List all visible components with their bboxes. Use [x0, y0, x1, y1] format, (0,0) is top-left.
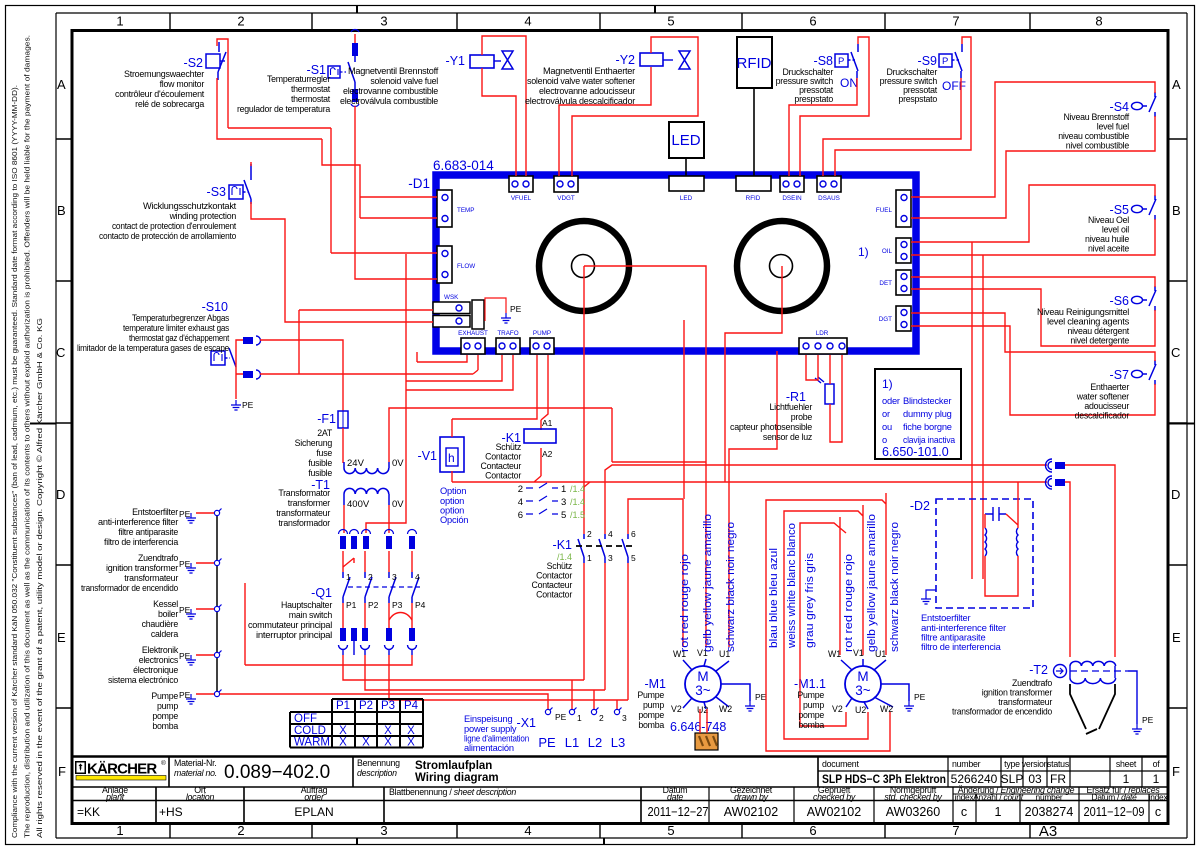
svg-text:-K1: -K1: [553, 538, 573, 552]
level switch S5: [1110, 195, 1156, 220]
connector WSK: [433, 294, 484, 329]
svg-text:6.683-014: 6.683-014: [433, 158, 494, 173]
spark gap electrodes: [1070, 684, 1115, 734]
svg-text:P2: P2: [359, 700, 373, 712]
svg-text:thermostat gaz d'échappement: thermostat gaz d'échappement: [129, 333, 230, 343]
svg-text:2038274: 2038274: [1025, 805, 1074, 819]
svg-text:electroválvula combustible: electroválvula combustible: [340, 96, 438, 106]
connector LED (board): [669, 176, 704, 191]
motor M1.1: [794, 648, 909, 715]
svg-text:rot red rouge rojo: rot red rouge rojo: [843, 554, 855, 652]
svg-text:2: 2: [599, 713, 604, 723]
svg-text:Entstoerfilter: Entstoerfilter: [921, 613, 970, 623]
wire board bottom to W1 join: [683, 320, 685, 499]
svg-text:PE: PE: [179, 509, 191, 519]
svg-text:h: h: [448, 451, 455, 465]
ground T2 PE: [1132, 724, 1142, 734]
svg-text:Enthaerter: Enthaerter: [1090, 382, 1129, 392]
svg-text:dummy plug: dummy plug: [903, 409, 952, 419]
svg-text:B: B: [57, 203, 66, 218]
contactor coil K1: [502, 418, 556, 459]
svg-text:SLP: SLP: [1001, 772, 1024, 786]
connector TEMP: [437, 190, 452, 227]
svg-text:LED: LED: [671, 132, 700, 149]
svg-text:level oil: level oil: [1102, 225, 1129, 235]
svg-text:relé de sobrecarga: relé de sobrecarga: [135, 99, 204, 109]
wire PUMP pin2 to K1 A1: [541, 355, 548, 430]
motor M1 wire colour labels: [679, 514, 737, 652]
wire circle2 to U1: [729, 351, 777, 647]
text S8: [776, 67, 834, 104]
svg-text:weiss white blanc blanco: weiss white blanc blanco: [786, 523, 798, 649]
svg-text:Material-Nr.: Material-Nr.: [174, 758, 216, 768]
svg-text:PE: PE: [242, 400, 254, 410]
column numbers top: [116, 14, 1102, 29]
svg-text:level cleaning agents: level cleaning agents: [1047, 317, 1130, 327]
svg-text:Anzahl / count: Anzahl / count: [973, 792, 1024, 802]
PE tap Elektronik: [179, 651, 222, 666]
svg-text:number: number: [952, 759, 981, 769]
svg-text:0V: 0V: [392, 458, 404, 469]
wire loop S6: [911, 277, 1155, 346]
connector VDGT: [554, 176, 578, 192]
svg-text:U2: U2: [855, 705, 866, 715]
svg-text:rot red rouge rojo: rot red rouge rojo: [679, 554, 691, 652]
svg-text:RFID: RFID: [746, 195, 761, 202]
svg-text:A3: A3: [1039, 823, 1057, 840]
PE tap Zuendtrafo: [179, 559, 222, 574]
svg-text:0V: 0V: [392, 499, 404, 510]
svg-text:6: 6: [518, 510, 523, 521]
svg-text:adoucisseur: adoucisseur: [1084, 401, 1129, 411]
transformer T1 primary 400V: [311, 478, 404, 510]
connector DGT: [879, 306, 911, 331]
PE tap Entstoerfilter: [179, 509, 222, 524]
svg-text:/1.4: /1.4: [570, 484, 585, 494]
svg-text:1: 1: [1153, 772, 1160, 786]
svg-text:4: 4: [518, 497, 523, 508]
svg-text:Schütz: Schütz: [496, 442, 521, 452]
svg-text:L1: L1: [565, 735, 579, 750]
winding protection S3: [207, 164, 251, 204]
wire S3 to WSK: [251, 162, 433, 322]
svg-text:OFF: OFF: [294, 713, 317, 725]
svg-text:-F1: -F1: [317, 412, 336, 426]
svg-text:solenoid valve water softener: solenoid valve water softener: [527, 76, 635, 86]
Q1 bottom plug pins: [339, 628, 417, 655]
svg-text:Zuendtrafo: Zuendtrafo: [138, 553, 178, 563]
svg-text:Blattbenennung / sheet descrip: Blattbenennung / sheet description: [389, 787, 516, 797]
wire S10 common to ground: [236, 340, 243, 399]
svg-text:Blindstecker: Blindstecker: [903, 396, 951, 406]
heater dial circle 2: [737, 221, 827, 311]
svg-text:-Y2: -Y2: [616, 53, 636, 67]
svg-text:1): 1): [858, 245, 869, 259]
svg-text:3: 3: [561, 497, 566, 508]
svg-text:24V: 24V: [347, 458, 365, 469]
svg-text:option: option: [440, 496, 464, 506]
svg-text:schwarz black noir negro: schwarz black noir negro: [889, 522, 901, 652]
svg-text:c: c: [961, 805, 967, 819]
svg-text:option: option: [440, 506, 464, 516]
svg-text:2: 2: [237, 14, 244, 29]
legend box dummy plug: [875, 369, 961, 459]
wire PUMP pin1 to V1: [452, 355, 537, 437]
svg-text:4: 4: [524, 823, 531, 838]
svg-text:Magnetventil Enthaerter: Magnetventil Enthaerter: [543, 66, 635, 76]
svg-text:TEMP: TEMP: [457, 207, 475, 214]
svg-text:transformador de encendido: transformador de encendido: [952, 707, 1052, 717]
svg-text:400V: 400V: [347, 499, 370, 510]
svg-text:Kessel: Kessel: [153, 599, 178, 609]
wago connector: [695, 733, 718, 750]
svg-text:fuse: fuse: [316, 448, 332, 458]
svg-text:filtre antiparasite: filtre antiparasite: [118, 527, 178, 537]
svg-text:schwarz black noir negro: schwarz black noir negro: [725, 522, 737, 652]
svg-text:bomba: bomba: [638, 720, 664, 730]
svg-text:pompe: pompe: [638, 710, 664, 720]
svg-text:WARM: WARM: [294, 737, 330, 749]
svg-text:Compliance with the current ve: Compliance with the current version of K…: [10, 85, 19, 838]
svg-text:index: index: [955, 792, 975, 802]
svg-text:WSK: WSK: [444, 294, 459, 301]
Kaercher logo: [75, 759, 166, 780]
svg-text:1: 1: [1123, 772, 1130, 786]
connector TRAFO: [496, 338, 520, 354]
K1 auxiliary contact list: [518, 483, 585, 521]
svg-text:2011−12−09: 2011−12−09: [1084, 805, 1145, 819]
svg-text:flow monitor: flow monitor: [160, 79, 205, 89]
svg-text:-S2: -S2: [184, 56, 204, 70]
svg-text:7: 7: [952, 823, 959, 838]
fuse F1: [317, 411, 348, 428]
svg-text:PE: PE: [755, 692, 767, 702]
motor M1: [644, 648, 750, 715]
K1 contact column wires up: [584, 465, 1047, 647]
svg-text:order: order: [304, 792, 325, 802]
svg-text:Sicherung: Sicherung: [295, 438, 333, 448]
svg-text:fusible: fusible: [308, 468, 332, 478]
svg-text:KÄRCHER: KÄRCHER: [87, 761, 157, 778]
svg-text:Niveau Brennstoff: Niveau Brennstoff: [1063, 112, 1129, 122]
svg-text:2: 2: [518, 484, 523, 495]
column numbers bottom: [116, 823, 1057, 840]
svg-text:6.646-748: 6.646-748: [670, 720, 726, 734]
svg-text:PE: PE: [914, 692, 926, 702]
svg-text:5: 5: [561, 510, 566, 521]
level switch S4: [1110, 92, 1156, 117]
svg-text:Entstoerfilter: Entstoerfilter: [132, 507, 178, 517]
pressure switch S9: [918, 44, 966, 93]
svg-text:Contactor: Contactor: [485, 452, 521, 462]
svg-text:Temperaturregler: Temperaturregler: [267, 74, 330, 84]
svg-text:transformateur: transformateur: [998, 697, 1052, 707]
text S2: [115, 69, 205, 109]
svg-text:DSEIN: DSEIN: [782, 195, 802, 202]
svg-text:-M1.1: -M1.1: [794, 677, 826, 691]
svg-text:pump: pump: [643, 700, 664, 710]
svg-text:3: 3: [380, 823, 387, 838]
svg-text:Contacteur: Contacteur: [480, 461, 521, 471]
EMC filter PE chain bus: [216, 513, 218, 694]
connector DSEIN: [780, 176, 804, 192]
svg-text:/1.5: /1.5: [570, 510, 585, 520]
svg-text:Stroemungswaechter: Stroemungswaechter: [124, 69, 204, 79]
svg-text:sistema electrónico: sistema electrónico: [108, 675, 178, 685]
svg-text:-S3: -S3: [207, 185, 227, 199]
svg-text:checked by: checked by: [813, 792, 856, 802]
svg-text:grau grey fris gris: grau grey fris gris: [804, 553, 816, 648]
svg-text:B: B: [1172, 203, 1181, 218]
svg-text:main switch: main switch: [289, 610, 333, 620]
svg-text:commutateur principal: commutateur principal: [248, 620, 332, 630]
svg-text:E: E: [57, 630, 66, 645]
wire Y2 to VDGT: [559, 37, 698, 176]
svg-text:PE: PE: [538, 735, 556, 750]
svg-text:6.650-101.0: 6.650-101.0: [882, 445, 949, 459]
svg-text:PE: PE: [510, 304, 522, 314]
svg-text:P3: P3: [392, 600, 403, 610]
svg-text:Contacteur: Contacteur: [531, 580, 572, 590]
wire LED to board: [685, 158, 687, 176]
svg-text:level fuel: level fuel: [1097, 122, 1130, 132]
svg-text:1: 1: [995, 805, 1002, 819]
svg-text:All rights reserved in the eve: All rights reserved in the event of the …: [35, 318, 44, 838]
svg-text:2: 2: [368, 572, 373, 582]
svg-text:5266240: 5266240: [951, 772, 998, 786]
text S3: [99, 201, 237, 241]
svg-text:number: number: [1036, 792, 1063, 802]
RFID box: [737, 37, 772, 88]
svg-text:std. checked by: std. checked by: [884, 792, 942, 802]
svg-text:P3: P3: [381, 700, 395, 712]
svg-text:X: X: [362, 737, 370, 749]
connector EXHAUST: [461, 338, 485, 354]
ground M1 PE: [745, 701, 755, 711]
svg-text:TRAFO: TRAFO: [497, 330, 518, 337]
svg-text:1: 1: [116, 14, 123, 29]
dummy plug connector 1: [1046, 459, 1066, 472]
svg-text:PE: PE: [179, 605, 191, 615]
svg-text:Wicklungsschutzkontakt: Wicklungsschutzkontakt: [143, 201, 237, 211]
wire EXHAUST TRAFO drops: [406, 352, 513, 390]
svg-text:D: D: [1171, 487, 1180, 502]
svg-text:LDR: LDR: [816, 330, 829, 337]
level switch S6: [1110, 286, 1156, 311]
svg-text:PE: PE: [179, 651, 191, 661]
svg-text:03: 03: [1028, 772, 1042, 786]
level switch S7: [1110, 360, 1156, 385]
text Y1: [340, 66, 439, 106]
svg-text:transformador de encendido: transformador de encendido: [81, 583, 178, 593]
svg-text:ligne d'alimentation: ligne d'alimentation: [464, 734, 529, 744]
svg-text:alimentación: alimentación: [464, 743, 514, 753]
wire 24V feed to motor V1 column: [389, 408, 706, 462]
svg-text:-V1: -V1: [418, 449, 438, 463]
wire M1 V2 U2 to wago: [700, 709, 707, 733]
text R1: [730, 402, 812, 442]
svg-text:2: 2: [237, 823, 244, 838]
svg-text:P4: P4: [415, 600, 426, 610]
svg-text:PE: PE: [555, 712, 567, 722]
svg-text:filtro de interferencia: filtro de interferencia: [921, 642, 1002, 652]
svg-text:gelb yellow jaune amarillo: gelb yellow jaune amarillo: [702, 514, 714, 652]
svg-text:+HS: +HS: [159, 805, 183, 819]
connector RFID (board): [736, 176, 771, 191]
svg-text:1: 1: [116, 823, 123, 838]
svg-text:descalcificador: descalcificador: [1075, 411, 1130, 421]
top column ticks: [170, 13, 1030, 30]
text K1 contacts: [531, 561, 572, 600]
svg-text:/1.4: /1.4: [570, 497, 585, 507]
wire F1 to 24V winding: [342, 428, 344, 463]
svg-text:4: 4: [415, 572, 420, 582]
wire loop S7: [911, 313, 1155, 415]
X1 terminal risers: [572, 680, 617, 709]
svg-text:-X1: -X1: [517, 716, 537, 730]
svg-text:transformador: transformador: [278, 518, 330, 528]
svg-text:fiche borgne: fiche borgne: [903, 422, 952, 432]
row letters: [56, 77, 66, 779]
svg-text:Benennung: Benennung: [357, 758, 400, 768]
svg-text:Transformator: Transformator: [278, 488, 330, 498]
svg-text:water softener: water softener: [1076, 392, 1130, 402]
svg-text:M: M: [857, 669, 868, 684]
svg-text:FR: FR: [1050, 772, 1066, 786]
svg-text:RFID: RFID: [737, 55, 772, 72]
svg-text:5: 5: [667, 14, 674, 29]
svg-text:oder: oder: [882, 396, 900, 406]
svg-text:DSAUS: DSAUS: [818, 195, 840, 202]
wire connector2 to T2: [1065, 482, 1070, 657]
wire S1 to FLOW: [355, 106, 437, 279]
svg-text:FUEL: FUEL: [876, 207, 893, 214]
svg-text:document: document: [822, 759, 859, 769]
svg-text:P1: P1: [346, 600, 357, 610]
svg-text:version: version: [1022, 759, 1049, 769]
svg-text:=KK: =KK: [77, 805, 100, 819]
svg-text:C: C: [56, 345, 65, 360]
svg-text:1: 1: [577, 713, 582, 723]
wire heater1 down: [583, 266, 585, 534]
svg-text:V2: V2: [832, 704, 843, 714]
board D1 outline: [436, 175, 916, 351]
svg-text:-S10: -S10: [202, 300, 228, 314]
svg-text:-D2: -D2: [910, 499, 930, 513]
svg-text:3: 3: [622, 713, 627, 723]
svg-text:Opción: Opción: [440, 515, 468, 525]
svg-text:Option: Option: [440, 486, 466, 496]
wire Y1 to VFUEL: [482, 36, 526, 176]
svg-text:ignition transformer: ignition transformer: [106, 563, 178, 573]
svg-text:EPLAN: EPLAN: [294, 805, 333, 819]
svg-text:-T2: -T2: [1029, 663, 1048, 677]
svg-text:niveau combustible: niveau combustible: [1058, 131, 1129, 141]
svg-text:-S7: -S7: [1110, 368, 1130, 382]
svg-text:Magnetventil Brennstoff: Magnetventil Brennstoff: [348, 66, 439, 76]
svg-text:Contactor: Contactor: [536, 571, 572, 581]
svg-text:ou: ou: [882, 422, 892, 432]
svg-text:solenoid valve fuel: solenoid valve fuel: [370, 76, 438, 86]
svg-text:-M1: -M1: [644, 677, 666, 691]
svg-text:4: 4: [608, 529, 613, 539]
motor M1.1 wire colour labels: [768, 514, 901, 652]
svg-text:date: date: [667, 792, 683, 802]
svg-text:filtro de interferencia: filtro de interferencia: [104, 537, 178, 547]
thermostat S1: [307, 30, 359, 107]
svg-text:EXHAUST: EXHAUST: [458, 330, 488, 337]
LED box: [669, 122, 704, 158]
svg-text:nivel detergente: nivel detergente: [1070, 336, 1129, 346]
svg-text:Niveau Oel: Niveau Oel: [1088, 215, 1129, 225]
svg-text:Niveau Reinigungsmittel: Niveau Reinigungsmittel: [1037, 307, 1129, 317]
svg-text:3~: 3~: [855, 683, 871, 698]
switch S2: [184, 42, 226, 80]
svg-text:bomba: bomba: [152, 721, 178, 731]
dummy plug connector 2: [1046, 476, 1066, 489]
svg-text:-D1: -D1: [408, 176, 430, 191]
text S9: [880, 67, 938, 104]
svg-text:or: or: [882, 409, 890, 419]
svg-text:6: 6: [631, 529, 636, 539]
wire RFID to board: [753, 88, 755, 176]
svg-text:M: M: [697, 669, 708, 684]
EMC filter D2 box: [910, 499, 1033, 608]
svg-text:1: 1: [346, 572, 351, 582]
svg-text:Datum / date: Datum / date: [1092, 792, 1138, 802]
connector OIL: [882, 238, 911, 263]
svg-text:AW02102: AW02102: [724, 805, 778, 819]
svg-text:W2: W2: [719, 704, 732, 714]
svg-text:P2: P2: [368, 600, 379, 610]
svg-text:winding protection: winding protection: [169, 211, 237, 221]
svg-text:-Q1: -Q1: [311, 586, 332, 600]
text T2: [952, 678, 1052, 717]
svg-text:pump: pump: [157, 701, 178, 711]
heater dial circle 1: [539, 221, 629, 311]
wire connector1 to T2: [1065, 465, 1115, 657]
svg-text:PE: PE: [179, 690, 191, 700]
svg-text:F: F: [58, 764, 66, 779]
text S1: [237, 74, 331, 114]
filter text D2: [921, 613, 1006, 652]
wire S2 top loop: [217, 39, 360, 253]
terminal strip X1: [517, 708, 627, 751]
svg-text:0.089−402.0: 0.089−402.0: [224, 762, 330, 783]
svg-text:o: o: [882, 435, 887, 445]
svg-text:niveau détergent: niveau détergent: [1067, 326, 1129, 336]
svg-text:-S6: -S6: [1110, 294, 1130, 308]
svg-text:Schütz: Schütz: [547, 561, 572, 571]
wire S10 lower to EXHAUST and WSK: [260, 310, 478, 374]
svg-text:status: status: [1047, 759, 1070, 769]
text T1: [276, 488, 330, 528]
svg-text:VDGT: VDGT: [557, 195, 575, 202]
wire bundle loop C: [800, 517, 846, 726]
svg-text:boiler: boiler: [158, 609, 178, 619]
svg-text:pump: pump: [803, 700, 824, 710]
svg-text:PE: PE: [1142, 715, 1154, 725]
row ticks left/right: [56, 139, 72, 708]
svg-text:PUMP: PUMP: [533, 330, 551, 337]
svg-text:limitador de la temperatura ga: limitador de la temperatura gases de esc…: [77, 343, 229, 353]
svg-text:Contactor: Contactor: [536, 590, 572, 600]
wire bundle loop A: [766, 493, 890, 751]
svg-text:temperature limiter exhaust ga: temperature limiter exhaust gas: [123, 323, 230, 333]
solenoid valve Y2: [616, 51, 690, 69]
wire into FLOW pin1: [331, 252, 437, 254]
supply wires Q1 to X1 and K1 columns: [245, 583, 628, 700]
